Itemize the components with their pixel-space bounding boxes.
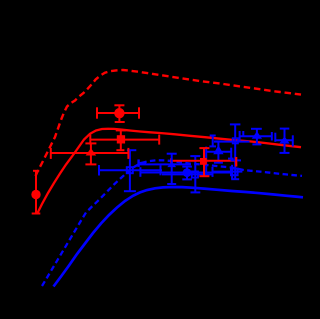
R3 vertical error bar <box>120 131 122 151</box>
R5 vbar top cap <box>199 147 209 149</box>
red solid curve (lower red model curve) <box>37 129 301 214</box>
B3 filled circle marker <box>183 168 192 177</box>
R1 vbar top cap <box>33 170 39 172</box>
blue dashed curve (upper blue model curve) <box>42 160 302 286</box>
R4 vertical error bar <box>90 143 92 164</box>
R5 vertical error bar <box>203 148 205 176</box>
R5 horizontal error bar <box>171 160 235 162</box>
R3 vbar bottom cap <box>116 149 124 151</box>
R1 filled circle marker <box>31 190 40 199</box>
B10 filled triangle marker <box>279 136 289 143</box>
B3 hbar right tall cap <box>231 165 233 179</box>
B4 open square marker <box>192 171 198 177</box>
B9 horizontal error bar <box>139 163 191 165</box>
red data points with error bars <box>32 105 237 213</box>
B6 small open square marker <box>233 138 238 143</box>
B5 vbar bottom cap <box>214 162 223 164</box>
R3 vbar top cap <box>116 129 126 131</box>
B1 open square marker <box>127 167 133 173</box>
B3 horizontal error bar <box>140 172 232 174</box>
B4 vbar top cap <box>190 155 200 157</box>
R2 vbar bottom cap <box>115 121 125 123</box>
R3 hbar left cap <box>89 135 91 145</box>
B10 vbar bottom cap <box>280 152 290 154</box>
R2 filled circle marker <box>114 108 124 118</box>
B5 vertical error bar <box>217 142 219 163</box>
R5 hbar left cap <box>170 158 172 166</box>
B4 vbar bottom cap <box>191 191 201 193</box>
B1 hbar left cap <box>98 165 100 176</box>
R4 hbar left cap <box>50 148 52 159</box>
red dashed curve (upper model curve) <box>36 70 302 176</box>
B7 vbar top cap <box>230 123 241 125</box>
B5 filled triangle marker <box>213 145 223 154</box>
B3 vbar top cap <box>182 166 192 168</box>
B8 vbar top cap <box>251 128 262 130</box>
B1 hbar right cap <box>160 165 162 175</box>
R2 vertical error bar <box>118 105 120 122</box>
blue bar near B7 over red hbar <box>231 159 242 161</box>
R4 vbar bottom cap <box>85 163 96 165</box>
B5 horizontal error bar <box>206 151 231 153</box>
R2 hbar left cap <box>96 107 98 118</box>
B7 horizontal error bar <box>213 171 243 173</box>
R5 hbar right cap <box>235 157 237 167</box>
R4 vbar top cap <box>85 142 96 144</box>
R3 hbar right cap <box>158 135 160 145</box>
blue error bars group (drawn under red points) <box>99 124 293 192</box>
B5 hbar left cap / long vertical bar <box>205 147 207 177</box>
R5 hbar right cap redrawn on top <box>235 157 237 167</box>
B4 horizontal error bar <box>162 174 213 176</box>
R2 hbar right cap <box>138 107 140 118</box>
B1 vertical error bar <box>129 150 131 191</box>
P1 vbar top cap <box>210 135 216 137</box>
small vertical tick near B8 hbar left end <box>242 131 244 136</box>
R3 filled square marker <box>117 135 125 143</box>
B10 hbar right tall cap <box>292 135 294 146</box>
B9 short second bar <box>139 162 146 164</box>
R5 vbar bottom cap <box>199 175 209 177</box>
R1 vbar bottom cap <box>32 213 41 215</box>
R2 horizontal error bar <box>97 112 139 114</box>
B9 vbar top cap <box>167 153 177 155</box>
B5 vbar top cap <box>214 140 222 142</box>
B7 vertical error bar <box>234 124 236 179</box>
R3 horizontal error bar <box>90 139 159 141</box>
P1 vbar bottom cap <box>209 145 216 147</box>
B1 horizontal error bar <box>99 169 162 171</box>
B1 vbar bottom cap <box>124 190 136 192</box>
B5 hbar right cap <box>230 148 232 159</box>
P1 extra blue vertical error bar <box>212 135 214 146</box>
B8 filled triangle marker <box>252 131 262 139</box>
B1 vbar top cap <box>127 149 136 151</box>
B10 vbar top cap <box>280 128 290 130</box>
R4 filled triangle marker <box>86 148 97 155</box>
B9 hbar left cap <box>137 159 139 167</box>
B10 hbar left cap <box>274 133 276 142</box>
blue markers group (drawn over red) <box>127 131 290 184</box>
B3 vbar bottom cap <box>182 178 192 180</box>
B1 hbar mid cap (second bar left cap) <box>139 167 141 177</box>
blue solid curve (lower blue model curve) <box>54 187 304 287</box>
B10 horizontal error bar <box>275 139 293 141</box>
B5 right cap foot <box>228 158 234 160</box>
R5 filled square marker <box>200 158 207 165</box>
R1 vertical error bar <box>35 171 37 214</box>
B10 vertical error bar <box>284 129 286 153</box>
R4 horizontal error bar <box>51 152 129 154</box>
B9 vertical error bar <box>171 154 173 184</box>
B9 small filled triangle marker <box>167 161 176 167</box>
B8 hbar left cap <box>239 131 241 141</box>
B7 vbar bottom cap <box>231 178 239 180</box>
R4 hbar right cap <box>127 148 129 159</box>
B8 hbar right cap <box>271 132 273 141</box>
B4 vertical error bar <box>194 156 196 192</box>
B8 vertical error bar <box>256 129 258 145</box>
B8 horizontal error bar <box>240 135 273 137</box>
R2 vbar top cap <box>114 104 124 106</box>
B9 vbar bottom cap <box>167 183 176 185</box>
B8 vbar bottom cap <box>252 143 261 145</box>
B3 vertical error bar <box>186 167 188 180</box>
B7 open square marker <box>231 169 238 176</box>
B7 hbar left cap <box>212 167 214 177</box>
P1/B6 horizontal error bar <box>214 141 250 143</box>
